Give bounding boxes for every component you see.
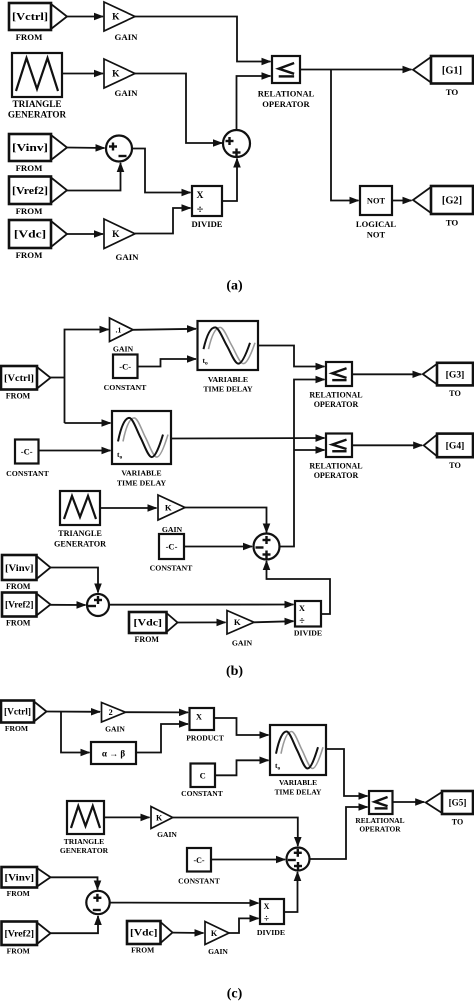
svg-text:TRIANGLE: TRIANGLE — [12, 99, 61, 109]
sum junction 2 (a) plus-plus — [223, 130, 250, 157]
wire Vctrl down to TimeDelay2 in1 (b) — [65, 422, 111, 424]
wire RelOp to G1 (a) — [300, 69, 412, 71]
gain K mid (b) — [158, 495, 185, 534]
wire Constant to TimeDelay2 in2 (b) — [39, 450, 111, 452]
svg-text:(c): (c) — [227, 987, 243, 1002]
wire Product to TimeDelay in1 (c) — [214, 718, 269, 735]
wire Vinv to Sum1 (a) — [67, 147, 105, 150]
svg-text:CONSTANT: CONSTANT — [150, 564, 194, 573]
svg-text:VARIABLE: VARIABLE — [279, 778, 317, 787]
wire Divide to Sum bottom (b) — [267, 561, 331, 614]
svg-text:GAIN: GAIN — [116, 252, 140, 262]
wire Constant to Sum left (c) — [211, 859, 285, 861]
svg-text:2: 2 — [109, 708, 113, 717]
wire Gain1 to RelOp in1 (a) — [135, 17, 271, 62]
svg-text:α → β: α → β — [102, 749, 126, 759]
wire GainK to Divide in2 (b) — [254, 621, 294, 622]
from block [Vdc] (a) — [9, 220, 67, 260]
triangle generator (b) — [60, 491, 100, 525]
svg-text:CONSTANT: CONSTANT — [178, 876, 220, 885]
gain K bottom (c) — [205, 922, 229, 957]
variable time delay 1 block (b) — [198, 321, 259, 370]
svg-text:GAIN: GAIN — [232, 639, 253, 648]
wire TimeDelay2 to RelOp2 in1 (b) — [171, 437, 325, 440]
svg-text:(b): (b) — [226, 664, 243, 679]
goto block [G4] (b) — [424, 434, 473, 470]
divide block (c) — [260, 899, 284, 925]
from block [Vctrl] (c) — [1, 701, 47, 734]
svg-text:GENERATOR: GENERATOR — [54, 540, 106, 549]
svg-text:GAIN: GAIN — [113, 345, 134, 354]
gain K #2 (a) — [104, 59, 138, 98]
svg-text:GENERATOR: GENERATOR — [60, 846, 109, 855]
svg-text:C: C — [200, 771, 206, 781]
gain K bottom (b) — [227, 611, 254, 648]
svg-text:TO: TO — [446, 87, 459, 97]
wire TriangleGen to GainK (b) — [100, 507, 157, 509]
svg-text:NOT: NOT — [367, 197, 386, 206]
svg-text:GAIN: GAIN — [157, 830, 177, 839]
svg-text:DIVIDE: DIVIDE — [294, 629, 322, 638]
wire GainK to Sum top (c) — [173, 818, 298, 847]
svg-text:GAIN: GAIN — [105, 725, 125, 734]
wire Divide to Sum bottom (c) — [284, 872, 298, 912]
svg-text:X: X — [299, 603, 306, 613]
svg-text:[Vref2]: [Vref2] — [5, 928, 35, 938]
svg-text:K: K — [112, 70, 120, 80]
wire NOT to G2 (a) — [392, 200, 412, 202]
relational operator block (c) — [369, 791, 393, 814]
svg-text:K: K — [112, 230, 120, 240]
svg-text:VARIABLE: VARIABLE — [121, 469, 161, 478]
svg-text:[Vctrl]: [Vctrl] — [12, 12, 48, 23]
svg-text:[Vctrl]: [Vctrl] — [4, 707, 31, 717]
gain -1 (b) — [110, 318, 134, 354]
sum junction 1 (a) plus-minus — [106, 136, 132, 162]
from block [Vdc] (c) — [127, 921, 173, 955]
wire branch RelOp to NOT (a) — [331, 70, 359, 201]
from block [Vctrl] (a) — [9, 3, 67, 42]
svg-text:CONSTANT: CONSTANT — [104, 383, 148, 392]
svg-text:K: K — [234, 617, 241, 627]
sum junction plus-minus (b) — [87, 594, 109, 616]
svg-text:GAIN: GAIN — [162, 525, 183, 534]
constant -C- (b mid) — [159, 534, 184, 559]
svg-text:OPERATOR: OPERATOR — [314, 400, 359, 409]
wire TriangleGen to Gain2 (a) — [62, 73, 103, 75]
svg-text:RELATIONAL: RELATIONAL — [355, 816, 404, 825]
svg-text:[Vdc]: [Vdc] — [14, 230, 46, 241]
svg-text:TO: TO — [449, 389, 461, 398]
svg-text:VARIABLE: VARIABLE — [208, 375, 248, 384]
wire Sum to RelOp in2 (c) — [310, 807, 368, 859]
wire Vctrl down to alpha-beta (c) — [61, 712, 90, 753]
wire Gain-1 to TimeDelay1 (b) — [133, 329, 196, 330]
svg-text:GAIN: GAIN — [208, 947, 228, 956]
wire TriangleGen to GainK (c) — [104, 816, 150, 818]
sum junction main (b) — [254, 534, 280, 560]
svg-text:GAIN: GAIN — [115, 88, 139, 98]
svg-text:RELATIONAL: RELATIONAL — [309, 462, 362, 471]
wire Sum2 to RelOp in2 (a) — [237, 76, 271, 130]
wire Vctrl up to Gain-1 (b) — [65, 330, 109, 424]
svg-text:PRODUCT: PRODUCT — [186, 734, 224, 743]
wire Gain2 to Product in1 (c) — [126, 711, 189, 713]
goto block [G3] (b) — [423, 363, 473, 398]
wire alpha-beta to Product in2 (c) — [136, 724, 188, 753]
svg-text:DIVIDE: DIVIDE — [257, 928, 285, 937]
svg-text:-C-: -C- — [21, 447, 33, 457]
wire Vref2 to SumPM bottom (c) — [51, 916, 99, 933]
svg-text:FROM: FROM — [6, 392, 31, 401]
logical NOT block (a) — [360, 186, 392, 215]
triangle generator (c) — [67, 801, 104, 834]
divide block (a) — [192, 186, 222, 216]
svg-text:-C-: -C- — [119, 362, 131, 372]
svg-text:K: K — [211, 929, 218, 938]
svg-text:OPERATOR: OPERATOR — [262, 99, 310, 109]
svg-text:[Vctrl]: [Vctrl] — [4, 373, 34, 384]
svg-text:FROM: FROM — [16, 32, 44, 42]
svg-text:[G3]: [G3] — [446, 369, 465, 380]
wire RelOp1 to G3 (b) — [352, 373, 421, 375]
svg-text:[Vref2]: [Vref2] — [5, 600, 34, 610]
product block (c) — [190, 708, 215, 730]
from block [Vinv] (b) — [2, 555, 51, 591]
relational operator block (a) — [272, 56, 300, 83]
gain 2 (c) — [102, 703, 126, 734]
svg-text:X: X — [264, 902, 270, 911]
relational operator 1 block (b) — [326, 362, 352, 386]
svg-text:[G4]: [G4] — [446, 441, 465, 452]
wire Vdc to GainK bottom (b) — [178, 621, 226, 623]
variable time delay block (c) — [270, 725, 326, 775]
wire RelOp to G5 (c) — [393, 801, 425, 803]
wire branch to RelOp2 in2 (b) — [294, 449, 325, 451]
svg-text:FROM: FROM — [131, 946, 154, 955]
wire Gain3 to Divide in2 (a) — [135, 208, 191, 234]
gain K mid (c) — [151, 807, 177, 840]
svg-text:CONSTANT: CONSTANT — [6, 469, 50, 478]
svg-text:÷: ÷ — [299, 616, 305, 627]
wire Sum1 to Divide in1 (a) — [132, 149, 191, 193]
svg-text:(a): (a) — [226, 279, 243, 294]
svg-text:X: X — [196, 712, 203, 722]
wire Constant to Sum left (b) — [184, 546, 252, 548]
svg-text:[G1]: [G1] — [442, 65, 462, 76]
svg-text:÷: ÷ — [197, 202, 204, 216]
goto block [G1] (a) — [413, 56, 473, 97]
svg-text:TO: TO — [452, 818, 463, 827]
from block [Vinv] (a) — [9, 134, 67, 173]
wire Vinv to SumPM top (c) — [51, 877, 98, 889]
svg-text:GENERATOR: GENERATOR — [8, 110, 67, 120]
wire Sum up to RelOp1 in2 (b) — [280, 380, 325, 547]
svg-text:DIVIDE: DIVIDE — [191, 219, 222, 229]
wire TimeDelay1 to RelOp1 in1 (b) — [258, 346, 325, 367]
svg-text:FROM: FROM — [6, 619, 31, 628]
svg-text:-C-: -C- — [193, 856, 204, 865]
divide block (b) — [295, 601, 321, 627]
svg-text:TO: TO — [446, 217, 459, 227]
wire TimeDelay to RelOp in1 (c) — [326, 749, 368, 796]
svg-text:TRIANGLE: TRIANGLE — [64, 837, 105, 846]
svg-text:TIME DELAY: TIME DELAY — [275, 788, 322, 797]
wire GainK to Divide in2 (c) — [229, 918, 259, 933]
svg-text:÷: ÷ — [264, 915, 269, 925]
wire Vref2 to Sum1 bottom (a) — [67, 163, 121, 191]
svg-text:FROM: FROM — [7, 947, 30, 956]
wire Vctrl to Gain2 (c) — [47, 711, 101, 713]
from block [Vref2] (b) — [2, 593, 51, 628]
from block [Vref2] (c) — [2, 922, 51, 956]
svg-text:RELATIONAL: RELATIONAL — [258, 89, 315, 99]
svg-text:LOGICAL: LOGICAL — [356, 219, 396, 229]
svg-text:X: X — [197, 190, 204, 201]
gain K #1 (a) — [104, 2, 138, 42]
svg-text:K: K — [165, 502, 172, 512]
svg-text:RELATIONAL: RELATIONAL — [309, 391, 362, 400]
svg-text:FROM: FROM — [135, 635, 160, 644]
svg-text:OPERATOR: OPERATOR — [314, 471, 359, 480]
svg-text:[G5]: [G5] — [449, 798, 467, 808]
wire Vdc to Gain3 (a) — [67, 233, 103, 235]
svg-text:TO: TO — [449, 461, 461, 470]
svg-text:[Vdc]: [Vdc] — [134, 618, 163, 628]
triangle generator (a) — [12, 53, 62, 97]
svg-text:[Vinv]: [Vinv] — [12, 143, 48, 154]
wire Vref2 to SumPM left (b) — [51, 604, 86, 606]
svg-text:TRIANGLE: TRIANGLE — [58, 529, 102, 538]
from block [Vref2] (a) — [9, 177, 67, 216]
svg-text:FROM: FROM — [7, 889, 30, 898]
constant C (c top) — [191, 764, 216, 788]
svg-text:FROM: FROM — [16, 250, 44, 260]
sum junction main (c) — [287, 848, 310, 871]
constant -C- (b left) — [15, 440, 39, 464]
svg-text:TIME DELAY: TIME DELAY — [203, 385, 253, 394]
svg-text:[Vdc]: [Vdc] — [130, 928, 158, 938]
constant -C- (b top) — [113, 355, 138, 379]
gain K #3 (a) — [104, 219, 139, 262]
svg-text:[G2]: [G2] — [442, 196, 462, 207]
svg-text:GAIN: GAIN — [115, 32, 139, 42]
goto block [G2] (a) — [413, 186, 473, 227]
svg-text:FROM: FROM — [16, 163, 44, 173]
wire SumPM to Divide in1 (c) — [110, 902, 259, 904]
goto block [G5] (c) — [426, 791, 473, 827]
svg-text:FROM: FROM — [16, 206, 44, 216]
wire Vdc to GainK bottom (c) — [173, 932, 204, 934]
svg-text:K: K — [156, 813, 163, 822]
svg-text:[Vinv]: [Vinv] — [5, 563, 34, 574]
svg-text:[Vinv]: [Vinv] — [5, 872, 35, 882]
wire Constant to TimeDelay1 in2 (b) — [138, 359, 197, 367]
from block [Vinv] (c) — [2, 867, 51, 898]
svg-text:OPERATOR: OPERATOR — [359, 825, 401, 834]
wire Vinv to SumPM top (b) — [51, 568, 99, 593]
svg-text:FROM: FROM — [5, 724, 28, 733]
variable time delay 2 block (b) — [112, 411, 171, 464]
from block [Vctrl] (b) — [1, 366, 51, 401]
wire Constant to TimeDelay in2 (c) — [215, 760, 269, 775]
wire RelOp2 to G4 (b) — [352, 444, 422, 446]
svg-text:FROM: FROM — [6, 582, 31, 591]
alpha to beta transform block (c) — [91, 742, 136, 764]
wire Vctrl to Gain (a) — [67, 16, 103, 18]
svg-text:-C-: -C- — [166, 542, 178, 552]
svg-text:TIME DELAY: TIME DELAY — [117, 479, 167, 488]
svg-text:[Vref2]: [Vref2] — [12, 186, 48, 197]
sum junction plus-minus (c) — [86, 891, 109, 914]
svg-text:NOT: NOT — [367, 230, 386, 240]
constant -C- (c mid) — [187, 848, 211, 872]
from block [Vdc] (b) — [129, 612, 178, 644]
wire Divide to Sum2 bottom (a) — [222, 159, 237, 202]
svg-text:CONSTANT: CONSTANT — [181, 789, 223, 798]
svg-text:K: K — [112, 13, 120, 23]
svg-text:.1: .1 — [116, 325, 122, 334]
relational operator 2 block (b) — [326, 434, 352, 458]
wire Gain2 to Sum2 (a) — [135, 74, 222, 144]
wire GainK to Sum top (b) — [185, 508, 267, 533]
wire SumPM to Divide in1 (b) — [109, 604, 294, 606]
wire Vctrl stub (b) — [51, 377, 65, 379]
